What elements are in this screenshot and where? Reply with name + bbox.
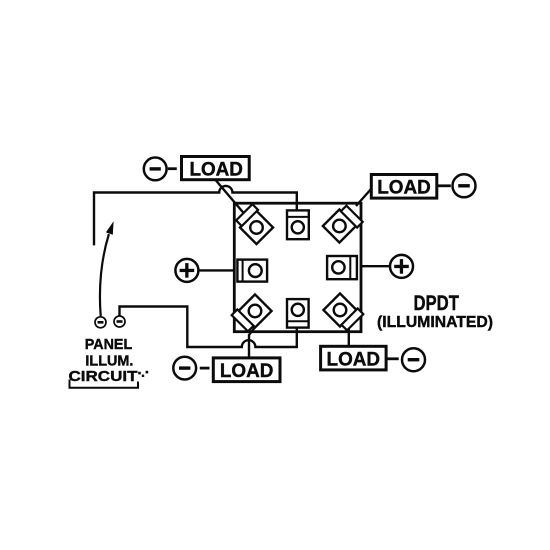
svg-text:LOAD: LOAD: [327, 349, 381, 370]
terminal 3 (top-right diamond with clamp): [323, 204, 363, 244]
supply terminal: minus circle (bottom-left): [173, 357, 196, 380]
terminal 5 (right-center rectangle): [327, 256, 357, 279]
svg-text:DPDT: DPDT: [413, 292, 459, 315]
label PANEL ILLUM. CIRCUIT: [69, 336, 149, 385]
svg-text:LOAD: LOAD: [377, 178, 431, 199]
panel illumination switch arm (arrow): [100, 221, 114, 316]
svg-text:(ILLUMINATED): (ILLUMINATED): [377, 314, 493, 331]
svg-text:LOAD: LOAD: [189, 160, 243, 181]
svg-text:CIRCUIT: CIRCUIT: [69, 368, 138, 385]
wire: panel illumination circuit to bottom-center lamp terminal, hops over load wire: [120, 307, 297, 348]
terminal 7 (left-center rectangle): [237, 260, 267, 282]
load box LOAD3 (bottom-left): [213, 358, 280, 382]
svg-text:PANEL: PANEL: [85, 336, 133, 353]
terminal 8 (bottom-center lamp terminal): [287, 299, 309, 328]
supply terminal: minus circle (top-right): [453, 174, 476, 197]
wire stub: dash between LOAD2 and minus terminal: [438, 184, 451, 187]
load box LOAD4 (bottom-right): [321, 346, 387, 370]
supply terminal: minus circle (bottom-right): [402, 348, 425, 371]
terminal 6 (bottom-right diamond with clamp): [323, 292, 363, 332]
screw terminal A (panel illum, left): [95, 317, 106, 328]
wire: horizontal run from panel circuit corner to top-center terminal, hops over load diagonal: [94, 186, 297, 245]
terminal 4 (bottom-left diamond with clamp): [232, 293, 272, 333]
load box LOAD1 (top-left): [182, 157, 250, 181]
svg-text:LOAD: LOAD: [220, 361, 274, 382]
bracket under CIRCUIT label: [70, 380, 139, 388]
svg-text:ILLUM.: ILLUM.: [85, 352, 133, 369]
wire stub: dash between LOAD4 and minus terminal: [387, 357, 399, 360]
supply terminal: minus circle (top-left): [144, 158, 167, 181]
wire stub: dash between minus terminal and LOAD3: [200, 367, 210, 370]
wire: diagonal from top-right LOAD box to terminal 3 clamp: [356, 189, 372, 207]
switch body S1 (DPDT): [234, 203, 361, 332]
terminal 2 (top-center rectangle): [287, 210, 309, 239]
wire: right-center terminal to right plus supply: [361, 265, 390, 267]
supply terminal: plus circle (left): [175, 259, 198, 282]
load box LOAD2 (top-right): [371, 175, 437, 199]
wire: terminal 6 (bottom-right diamond) clamp down to bottom-right LOAD box: [348, 328, 350, 346]
terminal 1 (top-left diamond with clamp): [235, 204, 275, 244]
wire stub: dash between minus terminal and LOAD1: [168, 167, 177, 170]
wire: terminal 4 (bottom-left diamond) down to bottom-left LOAD box: [249, 327, 255, 357]
wire: diagonal from top-left LOAD box to terminal 1 clamp: [216, 181, 247, 218]
wire: left plus supply to left-center terminal: [199, 269, 235, 271]
supply terminal: plus circle (right): [390, 255, 413, 278]
screw terminal B (panel illum, right): [114, 316, 125, 327]
